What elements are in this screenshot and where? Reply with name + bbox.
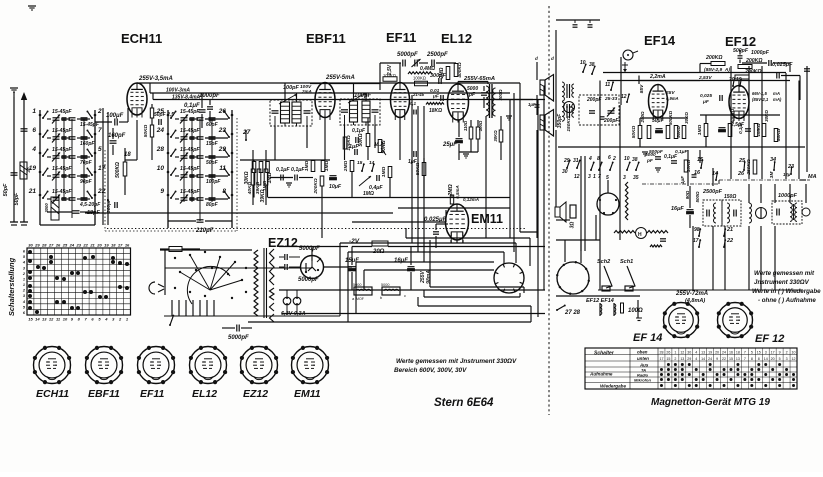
DIN pin tick [520,282,523,283]
wires to sockets right [556,295,640,297]
resistor 39K det [259,162,263,173]
svg-text:1MΩ: 1MΩ [324,161,330,172]
EZ12 rectifier tube [301,256,324,279]
MTG table numeric grid [664,348,666,389]
svg-text:1000pF: 1000pF [751,50,770,56]
svg-text:30: 30 [562,169,568,175]
resistor 110 Ohm EL12 [469,127,473,139]
svg-text:13: 13 [701,351,705,355]
svg-text:0,1μF: 0,1μF [675,149,689,155]
IFT1 output capacitor [304,110,311,112]
bus wire oscillator right [231,110,233,228]
svg-text:0,025μF: 0,025μF [772,62,793,68]
resistor 30K EF12 [762,124,766,137]
wire EF11 plate up [399,63,401,83]
oscillator capacitor2 row 4 [209,174,216,176]
resistor 30K under transformer [499,130,503,142]
head row verticals [692,226,694,290]
svg-text:0,1: 0,1 [410,101,417,106]
svg-text:30KΩ: 30KΩ [493,130,498,142]
svg-text:1MΩ: 1MΩ [304,161,310,172]
capacitor row 1 [69,117,76,119]
switch contact 25 [167,114,170,117]
svg-text:100KΩ: 100KΩ [413,76,426,81]
svg-text:19: 19 [29,165,37,172]
svg-text:100Ω: 100Ω [628,308,643,314]
socket EZ12 bottom view [241,347,278,384]
svg-text:6,5mA: 6,5mA [455,185,460,199]
resistor 200K af [320,176,324,186]
trimmer capacitor 15-45pF row 2 [53,136,60,138]
resistor 250 Ohm EF14 [647,126,651,139]
long bottom wire [248,321,531,323]
capacitor 50pF antenna right [21,128,28,130]
resistor 30K EF14 c [682,126,686,139]
svg-text:200KΩ: 200KΩ [744,69,761,75]
tube EM11 [446,204,469,240]
socket EM11 bottom view [292,347,329,384]
switch contact 19 [39,171,42,174]
heater rail [279,289,545,291]
capacitor 18pF bottom row [73,210,80,212]
svg-text:3Ω: 3Ω [570,222,576,229]
MTG switch table frame [585,348,797,389]
oscillator capacitor row 1 [197,117,204,119]
svg-text:1: 1 [32,108,36,115]
speaker feed wires [536,62,538,80]
svg-text:500pF: 500pF [649,149,664,155]
line transformer 2 [562,102,564,121]
playback head circle [756,208,767,219]
rotary switch top wire [160,249,252,251]
DIN pin tick [503,264,504,267]
resistor 1M avc b [321,161,325,172]
svg-text:500pF: 500pF [733,48,749,54]
svg-text:2,2mA: 2,2mA [649,74,666,80]
resistor cathode ECH11 upper [150,108,153,118]
input transformer top right of divider [555,30,557,127]
dashed box bias osc [604,146,626,148]
resistor 40K det [252,162,256,173]
speaker 1 cone [545,75,554,102]
oscillator padder 210pF [197,219,204,221]
svg-text:17: 17 [659,357,663,361]
svg-text:MOF: MOF [356,297,365,301]
bias osc wires [607,180,609,193]
svg-text:10KΩ: 10KΩ [686,159,692,172]
svg-text:EBF11: EBF11 [306,31,346,46]
IFT1 secondary winding [292,102,301,123]
svg-text:5000: 5000 [353,283,361,287]
resistor 50K sg [366,134,370,147]
EM11 grid wire left [352,221,446,223]
rotary switch drop wires [171,300,173,316]
svg-text:0,1μF: 0,1μF [352,128,366,134]
svg-text:100KΩ: 100KΩ [383,73,396,78]
switch contact 10 [167,171,170,174]
mains plug symbol [158,284,164,287]
svg-text:12: 12 [680,351,684,355]
resistor 30K oscillator [251,169,255,185]
input jack circle [564,102,575,113]
svg-text:4: 4 [695,351,697,355]
main rail EF14 area [558,146,805,148]
trimmer capacitor 15-45pF row 4 [53,174,60,176]
IFT1 input capacitor [272,110,279,112]
svg-text:Bereich 600V, 300V, 30V: Bereich 600V, 300V, 30V [394,367,467,374]
svg-text:200pF: 200pF [603,118,619,124]
ground secondary [506,115,512,117]
capacitor on antenna left [11,172,18,174]
svg-text:3M: 3M [769,171,775,179]
svg-text:150Ω: 150Ω [724,194,736,200]
svg-text:0,9mA: 0,9mA [666,96,679,101]
svg-text:15: 15 [729,357,733,361]
head row top verticals [748,184,750,203]
DIN pin tick [513,264,514,267]
svg-text:10: 10 [157,165,165,172]
capacitor 10uF [330,175,337,177]
svg-text:20: 20 [771,357,775,361]
svg-text:66V-1,5: 66V-1,5 [752,91,768,96]
svg-text:28: 28 [659,351,663,355]
capacitor3 row 3 [62,155,67,157]
fuse circle 2 [293,297,301,305]
svg-text:EM11: EM11 [471,212,503,226]
resistor 50K af [422,163,426,176]
MTG table dots [667,363,670,366]
svg-text:85V: 85V [639,84,645,93]
svg-text:500KΩ: 500KΩ [115,162,121,178]
resistor 400K EF12 [728,124,732,137]
socket EBF11 bottom view [86,347,123,384]
svg-text:7: 7 [98,127,102,134]
speaker 2 cone [545,110,554,137]
svg-text:4: 4 [695,357,697,361]
tube EF11 [391,83,410,118]
switch contact 17 [94,171,97,174]
svg-text:98: 98 [694,227,700,233]
svg-text:1: 1 [23,283,25,287]
svg-text:16: 16 [125,243,130,248]
svg-text:15-45pF: 15-45pF [180,128,200,134]
svg-text:23: 23 [76,243,82,248]
svg-text:Sch2: Sch2 [597,259,610,265]
svg-text:24: 24 [69,243,75,248]
socket ECH11 bottom view [34,347,71,384]
ground EF14 [642,151,648,153]
capacitor row 2 [69,136,76,138]
svg-text:50KΩ: 50KΩ [415,162,421,175]
svg-text:Mikrofon: Mikrofon [634,378,651,383]
switch contact 2 [94,114,97,117]
heater return wire [282,313,545,315]
svg-text:9: 9 [160,188,164,195]
switch contact 7 [94,133,97,136]
AF row wire [85,212,393,214]
switch contact 23 [231,133,234,136]
svg-text:8: 8 [758,357,760,361]
svg-text:15: 15 [357,160,363,166]
harness wire 4 [356,261,494,263]
oscillator capacitor3 row 2 [190,136,195,138]
top right corner cap [804,68,810,70]
power transformer core [263,248,265,318]
speaker transformer box 3 Ohm [570,205,576,218]
oscillator capacitor row 3 [197,155,204,157]
svg-text:14: 14 [701,357,705,361]
antenna bottom terminals [10,221,18,223]
svg-text:2MΩ: 2MΩ [343,161,349,173]
wire to small speaker [555,130,557,207]
svg-text:26: 26 [218,108,227,115]
tube EF12 right [729,86,749,119]
svg-text:EF 14: EF 14 [633,332,662,344]
IFT1 primary winding [281,102,290,123]
resistor 50K EF14 b [674,126,678,139]
svg-text:20: 20 [715,351,719,355]
tube EF14 [649,85,668,118]
svg-text:ECH11: ECH11 [121,31,162,46]
svg-text:25: 25 [156,108,165,115]
oscillator capacitor3 row 3 [190,155,195,157]
IFT2 trimmer arrow [348,93,366,103]
harness wire 8 [418,305,531,307]
rotary switch radial lines [190,255,210,290]
switch contact 26 [231,114,234,117]
DIN pin tick [520,272,523,273]
svg-text:unten: unten [637,356,649,361]
power transformer HV secondary [270,249,275,285]
switch contact 1 [39,114,42,117]
capacitor 160pF [110,140,117,142]
svg-text:23: 23 [218,127,227,134]
svg-text:22: 22 [97,188,106,195]
svg-text:d: d [535,56,538,61]
svg-text:255V-72mA: 255V-72mA [675,291,708,297]
IF transformer 2 dashed box [340,99,380,125]
capacitor2 row 4 [81,174,88,176]
svg-text:500Ω: 500Ω [695,191,700,203]
capacitor 300pF [114,202,116,208]
IFT1 bottom leads [274,116,276,126]
switch matrix grid [26,248,28,315]
svg-text:1MΩ: 1MΩ [363,191,374,197]
wire vertical near divider [543,86,545,291]
svg-text:5000pF: 5000pF [397,52,418,58]
svg-text:8: 8 [222,188,226,195]
dial lamp 1 [354,287,372,295]
svg-text:200KΩ: 200KΩ [313,178,319,194]
svg-text:1μF: 1μF [349,144,359,150]
IFT2 secondary winding [362,101,370,122]
oscillator coil 3000 [51,197,59,220]
ECH11 cathode drop [136,120,138,160]
svg-text:27 28: 27 28 [564,310,581,316]
rotary switch arc [187,266,230,304]
output transformer bottom wires [485,116,487,238]
svg-text:160pF: 160pF [80,141,95,147]
svg-text:MA: MA [808,174,817,180]
dotted chassis line [107,228,527,230]
svg-text:13: 13 [42,317,47,322]
svg-text:300Ω: 300Ω [498,89,503,101]
wire under EF12 [700,114,780,116]
svg-text:16: 16 [729,351,733,355]
svg-text:28: 28 [41,243,47,248]
output jack circle [802,208,810,216]
svg-text:160pF: 160pF [108,133,126,139]
svg-text:25: 25 [62,243,68,248]
ground 25uF [463,153,469,155]
oscillator capacitor2 row 1 [209,117,216,119]
oscillator trimmer row 4 [181,174,188,176]
switch contact 8 [231,194,234,197]
svg-text:10: 10 [624,156,630,162]
rotary switch mid wire [165,267,312,269]
svg-text:210pF: 210pF [195,228,214,234]
svg-text:pF: pF [646,158,654,164]
resistor 18K [426,103,444,105]
DIN pin tick [513,289,514,292]
svg-text:20Ω: 20Ω [372,249,385,255]
svg-text:98mA: 98mA [426,270,432,284]
capacitor2 row 2 [81,136,88,138]
svg-text:10: 10 [63,317,68,322]
svg-text:250KΩ: 250KΩ [746,159,752,175]
bank B threading verticals [199,119,201,221]
svg-text:400KΩ: 400KΩ [457,62,463,78]
svg-text:1MΩ: 1MΩ [697,125,703,136]
svg-text:2mA: 2mA [301,89,312,94]
svg-text:0,1μF: 0,1μF [738,122,743,134]
svg-text:26: 26 [666,351,670,355]
tube EBF11 [315,83,335,118]
svg-text:0,01: 0,01 [430,88,440,94]
capacitor3 row 2 [62,136,67,138]
IFT2 input capacitor [341,109,348,111]
svg-text:50pF: 50pF [3,183,9,196]
DIN pin tick [503,289,504,292]
svg-text:17: 17 [693,238,699,244]
svg-text:1000pF: 1000pF [778,193,798,199]
oscillator capacitor row 2 [197,136,204,138]
svg-text:17: 17 [98,165,106,172]
svg-text:12: 12 [49,317,54,322]
zigzag resistor right of H [647,231,668,234]
wire EF12 grid drop [738,81,740,87]
wire grid to tube [127,108,129,122]
dash-dot measure line [642,183,719,185]
svg-text:6: 6 [32,127,36,134]
motor feed wires [564,240,566,262]
svg-text:100pF: 100pF [354,93,372,99]
wire EF14 legs row [640,117,688,119]
top right caps [556,19,600,21]
svg-text:15-45pF: 15-45pF [80,122,100,128]
ground det [286,182,292,184]
svg-text:15-45pF: 15-45pF [52,109,72,115]
line transformer 1 [562,82,564,101]
resistor 300K EF12 [754,124,758,137]
svg-text:5: 5 [779,357,781,361]
svg-text:22: 22 [722,357,726,361]
oscillator capacitor row 5 [197,197,204,199]
oscillator trimmer row 2 [181,136,188,138]
svg-text:5000pF: 5000pF [298,277,319,283]
wire EZ12 anode top [279,246,348,248]
svg-text:0,1μF: 0,1μF [276,167,290,173]
oscillator trimmer row 1 [181,117,188,119]
tiny ground symbol top-left [28,5,36,7]
svg-text:255V-3,5mA: 255V-3,5mA [138,76,173,82]
power transformer winding 4 [270,314,275,322]
wire EF14 grid drop [638,76,640,85]
svg-text:1: 1 [593,174,596,180]
speaker 2 voice coil [540,115,545,130]
capacitor3 row 4 [62,174,67,176]
rotary switch lever [169,324,171,326]
switch contact 4 [39,152,42,155]
svg-text:mA: mA [773,91,780,96]
svg-text:90Ω: 90Ω [685,190,690,199]
svg-text:27: 27 [48,243,54,248]
capacitor2 row 5 [81,197,88,199]
wire det row [240,159,330,161]
tone trimmer [414,60,416,67]
svg-text:Magnetton-Gerät MTG 19: Magnetton-Gerät MTG 19 [651,397,770,408]
rotary switch bottom wire [164,315,340,317]
svg-text:21-45: 21-45 [412,92,425,97]
svg-text:20: 20 [96,243,102,248]
bank A threading verticals [71,119,73,218]
svg-text:Aufnahme: Aufnahme [589,372,613,377]
wire EM11 top [451,195,453,198]
socket EF11 bottom view [138,347,175,384]
svg-text:8: 8 [751,357,753,361]
svg-text:30: 30 [28,243,33,248]
volume pot arrow [359,176,371,186]
resistor 500K EF14 [666,126,670,139]
svg-text:38: 38 [632,157,638,163]
svg-text:10μF: 10μF [329,184,342,190]
svg-text:16μF: 16μF [394,258,408,264]
capacitor2 row 1 [81,117,88,119]
svg-text:3: 3 [623,175,626,181]
svg-text:50KΩ: 50KΩ [358,133,364,146]
power transformer winding 3 [270,303,275,311]
svg-text:15-45pF: 15-45pF [52,147,72,153]
svg-text:14: 14 [764,357,768,361]
svg-text:d: d [551,56,554,61]
svg-text:5: 5 [98,146,102,153]
dial lamp 2 [382,287,400,295]
svg-text:4: 4 [31,146,36,153]
svg-text:100pF: 100pF [206,179,221,185]
mic arrow symbol [624,62,626,72]
switch contact 28 [167,152,170,155]
svg-text:30: 30 [687,351,691,355]
vertical zigzag resistor right [625,182,628,220]
switch contact 29 [231,152,234,155]
svg-text:Wiedergabe: Wiedergabe [600,384,626,389]
switch contact 24 [167,133,170,136]
svg-text:1MΩ: 1MΩ [381,167,387,178]
svg-text:0,1μF: 0,1μF [291,167,305,173]
svg-text:15: 15 [666,357,670,361]
harness wire 7 [424,296,520,298]
svg-text:1μF: 1μF [680,176,685,184]
